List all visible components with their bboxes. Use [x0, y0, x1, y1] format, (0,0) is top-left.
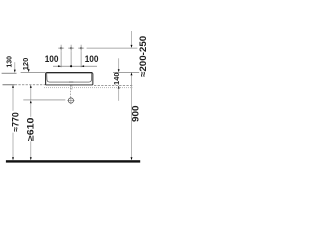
- basin rim line: [46, 72, 92, 74]
- basin inner wall second line: [46, 73, 92, 84]
- arrow at x=61 pointing right: [58, 65, 61, 67]
- extension line below marker 3: [80, 52, 82, 68]
- dim 120 arrow: [28, 65, 30, 73]
- dimension line 100+100: [53, 65, 97, 67]
- dim 200-250 upper stem with down arrow: [131, 31, 133, 48]
- basin outer shell: [46, 73, 93, 85]
- svg-text:130: 130: [5, 56, 14, 68]
- left rim extension / tick for 120: [21, 71, 46, 73]
- dim 140 top stem with down arrow: [118, 58, 120, 72]
- svg-text:≈770: ≈770: [11, 112, 21, 132]
- floor line: [6, 160, 140, 162]
- dim 140 bottom stem with up arrow: [118, 86, 120, 101]
- left tick for 130: [2, 72, 17, 74]
- svg-text:≈200-250: ≈200-250: [137, 36, 148, 77]
- svg-text:120: 120: [21, 58, 30, 71]
- arrow at x=81 pointing left: [81, 65, 84, 67]
- svg-text:140: 140: [112, 72, 121, 85]
- extension line below marker 1: [60, 52, 62, 68]
- svg-text:900: 900: [130, 105, 140, 122]
- counter top left dashed: [15, 84, 46, 86]
- junction dot at x=71: [70, 65, 72, 67]
- dim 130 arrow: [14, 62, 16, 72]
- siphon circle symbol: [67, 97, 74, 104]
- drain dashed pipe: [70, 82, 72, 97]
- dim 900 stem: [131, 72, 133, 160]
- svg-text:100: 100: [45, 53, 59, 64]
- tap hole marker 1: [58, 45, 64, 52]
- counter top left solid tick: [3, 84, 15, 86]
- basin inner bowl: [47, 73, 92, 82]
- dim 770 stem with arrows: [12, 85, 14, 160]
- dim 610 stem with arrows: [30, 85, 32, 160]
- counter top dashed right of basin: [94, 84, 132, 86]
- drain marks in basin: [69, 81, 73, 83]
- svg-text:≥610: ≥610: [26, 117, 36, 141]
- extension line below marker 2: [70, 52, 72, 68]
- console underside line: [23, 99, 65, 101]
- rim extension right: [113, 71, 139, 73]
- tap hole marker 3: [78, 45, 84, 52]
- counter underside dotted: [44, 87, 132, 89]
- svg-text:100: 100: [85, 53, 99, 64]
- tap hole marker 2: [68, 45, 74, 52]
- leader line from markers to right: [87, 47, 138, 49]
